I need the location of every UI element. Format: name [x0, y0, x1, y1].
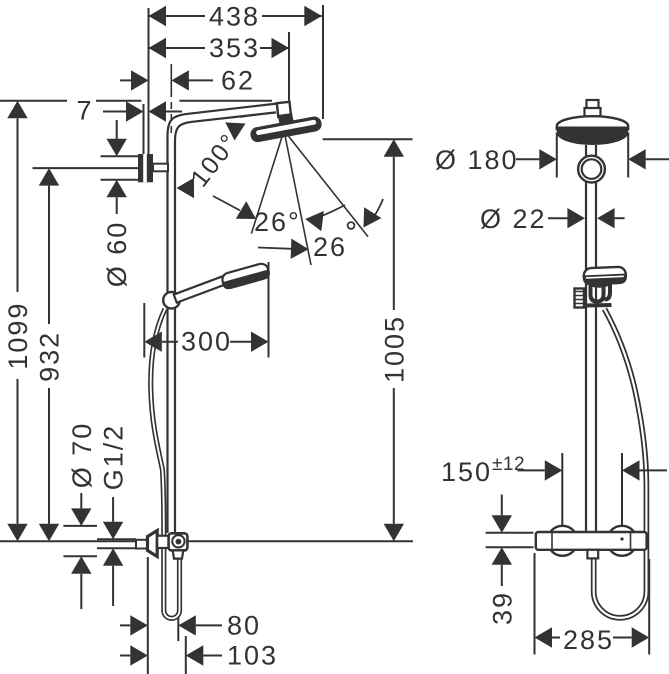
- svg-text:285: 285: [563, 625, 614, 655]
- svg-text:Ø 180: Ø 180: [435, 145, 519, 175]
- svg-text:Ø 22: Ø 22: [480, 204, 547, 234]
- svg-text:G1/2: G1/2: [99, 424, 129, 491]
- svg-text:1099: 1099: [3, 302, 33, 370]
- svg-text:7: 7: [77, 96, 94, 126]
- svg-text:438: 438: [209, 2, 260, 32]
- svg-text:80: 80: [227, 611, 261, 641]
- svg-text:26: 26: [313, 232, 347, 262]
- svg-text:353: 353: [209, 33, 260, 63]
- svg-text:Ø 60: Ø 60: [102, 221, 132, 288]
- svg-text:932: 932: [35, 331, 65, 382]
- svg-text:62: 62: [221, 66, 255, 96]
- svg-text:103: 103: [227, 641, 278, 671]
- svg-text:150: 150: [441, 457, 492, 487]
- svg-text:Ø 70: Ø 70: [67, 422, 97, 489]
- svg-text:±12: ±12: [492, 454, 525, 475]
- svg-text:300: 300: [181, 327, 232, 357]
- svg-text:26°: 26°: [254, 207, 301, 237]
- svg-text:1005: 1005: [379, 315, 409, 383]
- svg-text:39: 39: [487, 591, 517, 625]
